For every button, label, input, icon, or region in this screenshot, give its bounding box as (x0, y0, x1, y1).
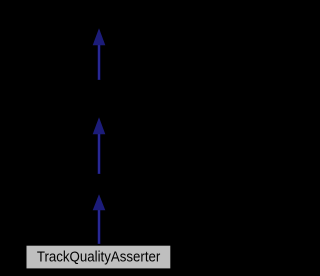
inheritance arrow 3 (bottom) (93, 194, 106, 244)
inheritance arrow 2 (middle) (93, 117, 106, 174)
arrow 2 shaft (98, 134, 100, 174)
arrow 3 shaft glow (97, 210, 100, 245)
arrow 1 head (93, 28, 106, 45)
arrow 2 shaft glow (97, 134, 100, 175)
node box TrackQualityAsserter (27, 246, 171, 269)
arrow 3 head (93, 194, 106, 210)
arrow 3 shaft (98, 210, 100, 244)
arrow 1 shaft glow (97, 45, 100, 81)
svg-text:TrackQualityAsserter: TrackQualityAsserter (37, 250, 161, 266)
arrow 1 shaft (98, 45, 100, 80)
arrow 2 head (93, 117, 106, 134)
inheritance arrow 1 (top) (93, 28, 106, 80)
